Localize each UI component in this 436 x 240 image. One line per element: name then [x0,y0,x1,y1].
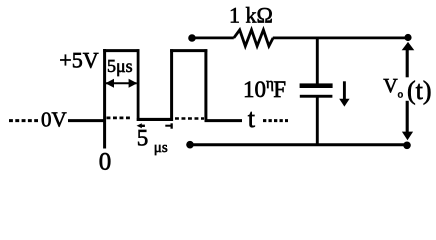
svg-text:t: t [248,104,256,133]
svg-text:μs: μs [154,140,168,156]
svg-text:0: 0 [99,149,112,176]
svg-text:5μs: 5μs [107,56,133,76]
svg-text:10: 10 [243,77,266,102]
svg-text:F: F [273,77,286,102]
svg-text:(t): (t) [407,76,432,105]
svg-text:5: 5 [137,126,149,151]
svg-text:1 kΩ: 1 kΩ [229,2,273,27]
svg-text:o: o [398,88,404,100]
svg-text:V: V [383,75,398,97]
svg-text:+5V: +5V [59,47,98,72]
svg-text:0V: 0V [41,107,67,131]
